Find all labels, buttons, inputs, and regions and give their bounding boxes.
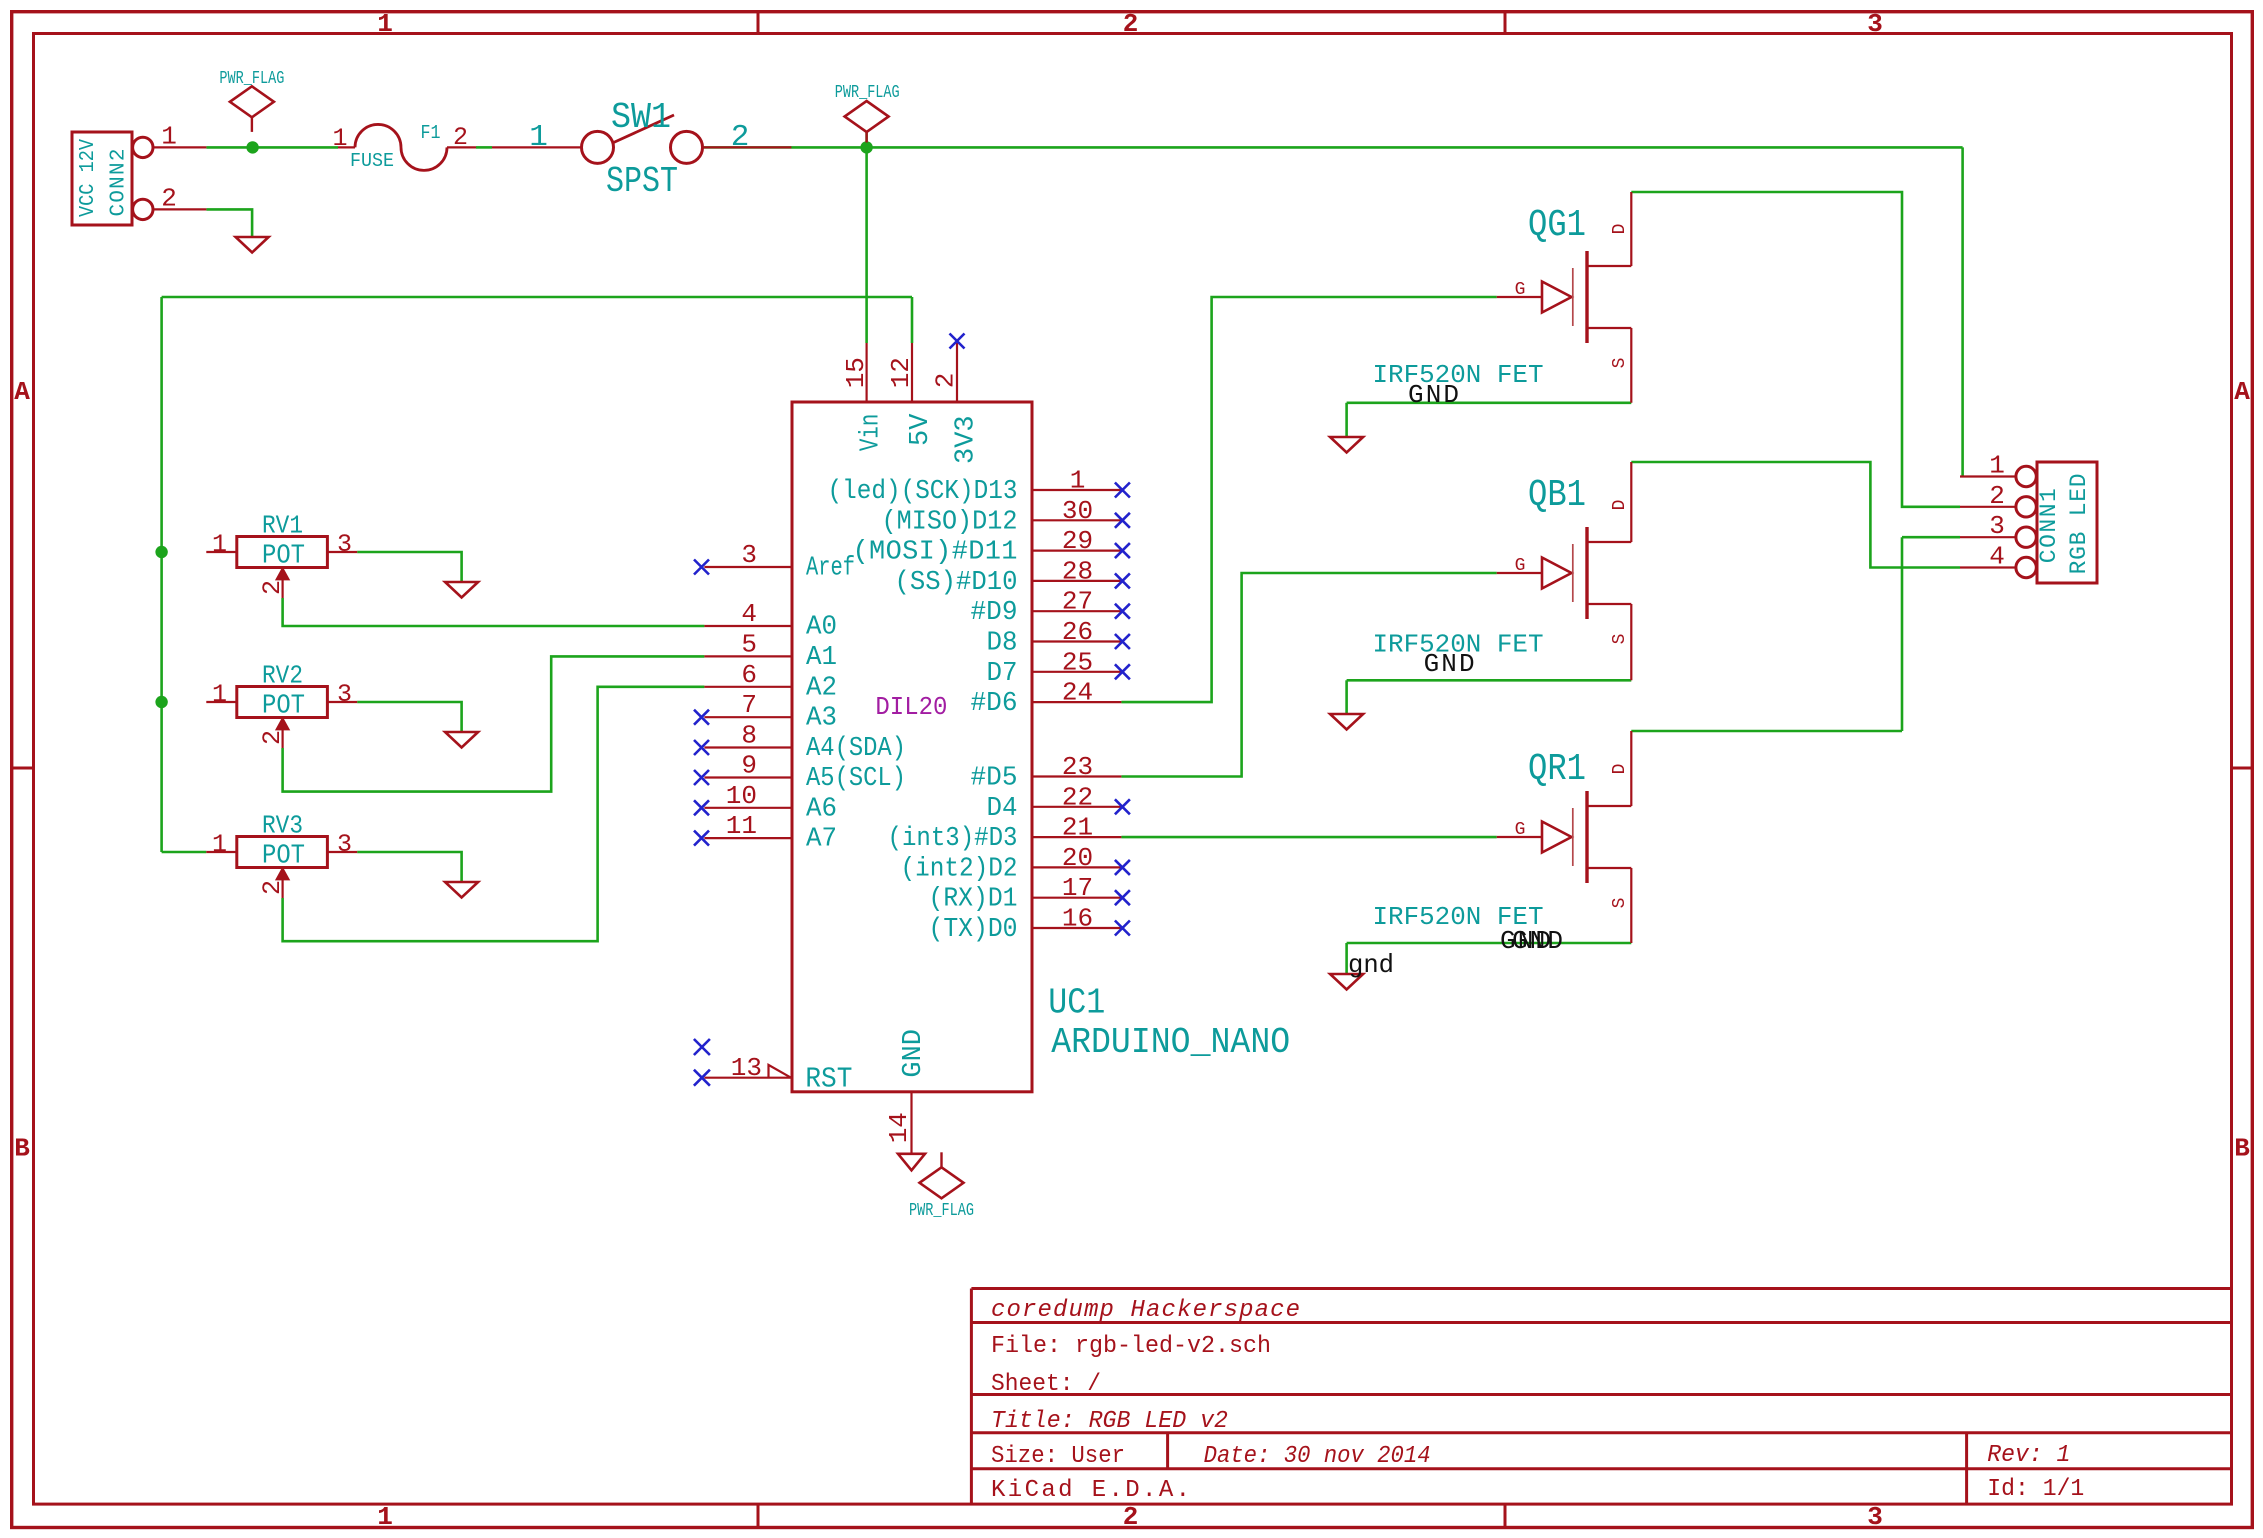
svg-text:G: G [1515,280,1526,300]
svg-text:QR1: QR1 [1528,748,1586,791]
svg-text:gnd: gnd [1348,950,1394,980]
svg-text:DIL20: DIL20 [875,692,947,722]
svg-text:GND: GND [899,1029,929,1078]
svg-text:RST: RST [805,1063,852,1096]
svg-text:2: 2 [258,730,287,745]
svg-text:B: B [14,1134,30,1164]
svg-text:8: 8 [741,721,757,751]
svg-text:Date: 30 nov 2014: Date: 30 nov 2014 [1204,1443,1431,1470]
svg-text:D4: D4 [987,794,1018,824]
svg-text:#D6: #D6 [971,689,1018,719]
svg-text:21: 21 [1062,813,1093,843]
svg-text:2: 2 [161,184,177,214]
svg-text:Title: RGB LED v2: Title: RGB LED v2 [991,1408,1228,1435]
svg-text:PWR_FLAG: PWR_FLAG [835,83,900,103]
svg-text:A4(SDA): A4(SDA) [806,734,906,764]
svg-text:(RX)D1: (RX)D1 [929,885,1018,915]
svg-text:D7: D7 [987,659,1018,689]
svg-text:15: 15 [841,357,871,388]
svg-text:16: 16 [1062,904,1093,934]
svg-text:GND: GND [1424,649,1475,679]
svg-text:ARDUINO_NANO: ARDUINO_NANO [1051,1022,1290,1063]
svg-text:2: 2 [731,120,750,155]
svg-text:A1: A1 [806,643,837,673]
svg-text:RV2: RV2 [262,661,303,691]
svg-text:Id: 1/1: Id: 1/1 [1987,1476,2084,1503]
svg-text:4: 4 [1989,542,2005,572]
svg-text:RGB LED: RGB LED [2066,473,2092,574]
svg-text:22: 22 [1062,782,1093,812]
svg-text:3: 3 [337,530,352,559]
svg-text:FUSE: FUSE [350,150,394,172]
svg-text:5: 5 [741,629,757,659]
svg-text:#D5: #D5 [971,764,1018,794]
svg-text:G: G [1515,556,1526,576]
svg-text:VCC 12V: VCC 12V [77,139,100,217]
svg-text:3V3: 3V3 [952,415,982,464]
svg-text:POT: POT [262,692,305,722]
svg-text:23: 23 [1062,752,1093,782]
svg-text:(led)(SCK)D13: (led)(SCK)D13 [828,477,1018,507]
svg-text:6: 6 [741,660,757,690]
svg-text:1: 1 [161,121,177,151]
svg-text:1: 1 [1989,451,2005,481]
svg-text:(int3)#D3: (int3)#D3 [888,824,1018,854]
svg-text:4: 4 [741,599,757,629]
svg-text:F1: F1 [421,122,441,144]
svg-text:13: 13 [731,1053,762,1083]
svg-text:1: 1 [377,9,393,39]
svg-text:(TX)D0: (TX)D0 [929,915,1018,945]
svg-text:coredump Hackerspace: coredump Hackerspace [991,1297,1300,1324]
svg-text:PWR_FLAG: PWR_FLAG [219,69,284,89]
svg-text:QB1: QB1 [1528,474,1586,517]
svg-text:UC1: UC1 [1048,983,1105,1024]
svg-text:2: 2 [258,880,287,895]
svg-text:2: 2 [453,123,468,152]
svg-text:3: 3 [337,680,352,709]
svg-text:S: S [1610,634,1630,645]
svg-text:A2: A2 [806,673,837,703]
svg-text:10: 10 [726,781,757,811]
svg-text:Aref: Aref [806,554,855,584]
svg-text:Sheet: /: Sheet: / [991,1371,1101,1398]
svg-text:B: B [2234,1134,2250,1164]
svg-text:2: 2 [1123,1502,1139,1532]
svg-text:17: 17 [1062,873,1093,903]
svg-text:S: S [1610,358,1630,369]
svg-text:G: G [1515,820,1526,840]
svg-text:D: D [1610,500,1630,511]
svg-text:1: 1 [332,124,347,153]
svg-text:26: 26 [1062,617,1093,647]
svg-text:CONN1: CONN1 [2036,488,2062,563]
svg-text:QG1: QG1 [1528,204,1586,247]
svg-text:25: 25 [1062,647,1093,677]
svg-text:A7: A7 [806,825,837,855]
svg-text:Rev: 1: Rev: 1 [1987,1442,2070,1469]
svg-text:28: 28 [1062,556,1093,586]
svg-text:3: 3 [741,540,757,570]
svg-text:27: 27 [1062,587,1093,617]
svg-text:SW1: SW1 [611,97,671,138]
svg-text:Vin: Vin [857,414,887,451]
svg-text:3: 3 [1867,9,1883,39]
svg-text:(int2)D2: (int2)D2 [901,854,1018,884]
svg-text:1: 1 [212,680,227,709]
svg-text:POT: POT [262,542,305,572]
svg-text:7: 7 [741,690,757,720]
svg-text:D: D [1610,224,1630,235]
svg-text:D: D [1610,764,1630,775]
svg-text:PWR_FLAG: PWR_FLAG [909,1201,974,1221]
svg-text:#D9: #D9 [971,598,1018,628]
svg-text:3: 3 [1989,511,2005,541]
svg-text:SPST: SPST [606,161,678,202]
svg-text:11: 11 [726,811,757,841]
svg-text:A5(SCL): A5(SCL) [806,764,906,794]
svg-text:(MISO)D12: (MISO)D12 [882,507,1018,537]
svg-text:1: 1 [212,530,227,559]
svg-text:14: 14 [884,1112,914,1143]
svg-text:A3: A3 [806,704,837,734]
svg-text:12: 12 [886,357,916,388]
svg-text:1: 1 [377,1502,393,1532]
svg-text:30: 30 [1062,496,1093,526]
svg-text:(SS)#D10: (SS)#D10 [895,568,1018,598]
svg-text:1: 1 [1070,466,1086,496]
svg-text:1: 1 [212,830,227,859]
svg-text:POT: POT [262,842,305,872]
svg-text:2: 2 [1989,481,2005,511]
svg-text:A: A [2234,377,2250,407]
svg-text:CONN2: CONN2 [108,149,131,217]
svg-text:GND: GND [1512,926,1563,956]
svg-text:D8: D8 [987,629,1018,659]
svg-text:A0: A0 [806,613,837,643]
svg-text:3: 3 [1867,1502,1883,1532]
svg-text:2: 2 [931,373,961,389]
svg-text:(MOSI)#D11: (MOSI)#D11 [853,538,1018,568]
svg-text:9: 9 [741,751,757,781]
svg-text:GND: GND [1408,380,1459,410]
svg-text:20: 20 [1062,843,1093,873]
svg-text:3: 3 [337,830,352,859]
svg-text:1: 1 [529,120,548,155]
svg-text:24: 24 [1062,678,1093,708]
svg-text:A: A [14,377,30,407]
svg-text:Size: User: Size: User [991,1443,1125,1470]
svg-text:RV3: RV3 [262,811,303,841]
svg-text:5V: 5V [906,413,936,446]
svg-text:File: rgb-led-v2.sch: File: rgb-led-v2.sch [991,1333,1271,1360]
svg-text:RV1: RV1 [262,511,303,541]
svg-text:29: 29 [1062,526,1093,556]
svg-text:2: 2 [1123,9,1139,39]
svg-text:A6: A6 [806,794,837,824]
svg-text:2: 2 [258,580,287,595]
svg-text:S: S [1610,898,1630,909]
